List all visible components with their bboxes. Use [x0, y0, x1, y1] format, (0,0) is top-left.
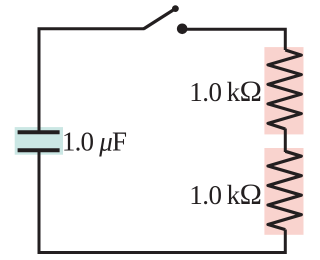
wire bottom: R2 to capacitor bottom plate [39, 150, 285, 252]
switch SW1 right terminal dot [177, 24, 188, 35]
capacitor C1 highlight box [15, 127, 63, 155]
wire top-left: capacitor top plate to switch left terminal [39, 29, 144, 132]
svg-text:1.0 kΩ: 1.0 kΩ [189, 178, 261, 211]
resistor R2 highlight box [264, 148, 303, 235]
resistor R1 zigzag [268, 50, 301, 129]
capacitor C1 bottom plate [18, 148, 60, 152]
resistor R2 zigzag [268, 151, 301, 229]
switch SW1 lever tip dot [172, 5, 179, 12]
wire between R1 and R2 [284, 129, 287, 153]
svg-text:1.0 μF: 1.0 μF [62, 127, 127, 157]
switch SW1 lever [144, 9, 176, 29]
wire top-right from switch to resistor R1 [182, 29, 285, 50]
resistor R1 highlight box [264, 47, 303, 134]
capacitor C1 top plate [18, 130, 60, 134]
svg-text:1.0 kΩ: 1.0 kΩ [189, 75, 261, 108]
